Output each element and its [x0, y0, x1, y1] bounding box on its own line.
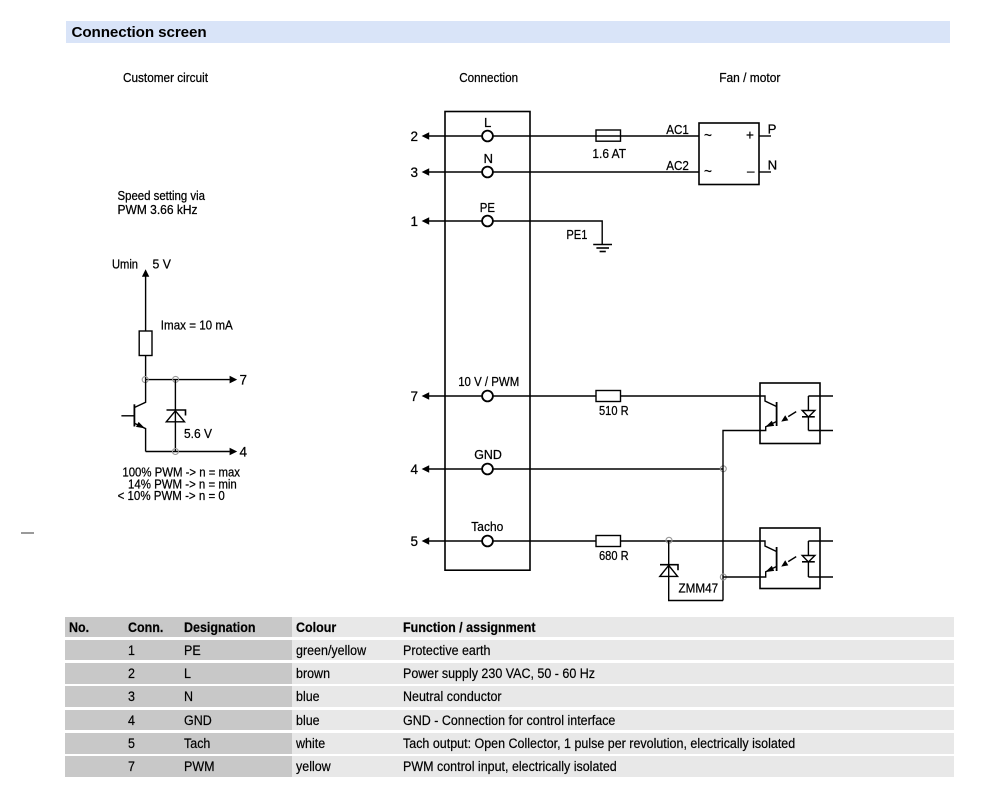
svg-text:Fan / motor: Fan / motor [719, 70, 781, 85]
wire P stub [759, 135, 771, 137]
wire resistor to opto1 [621, 395, 761, 397]
terminal Tacho [482, 536, 493, 547]
node A [142, 377, 148, 383]
svg-text:5.6 V: 5.6 V [184, 426, 212, 441]
svg-text:ZMM47: ZMM47 [679, 581, 719, 596]
zener diode ZMM47 [660, 540, 723, 600]
node B [173, 376, 179, 382]
wire PE to ground [493, 221, 603, 245]
terminal GND [482, 464, 493, 475]
wire terminal 3 arrow [422, 168, 483, 176]
terminal N [482, 167, 493, 178]
svg-text:< 10% PWM -> n = 0: < 10% PWM -> n = 0 [118, 488, 225, 503]
svg-text:~: ~ [704, 164, 712, 179]
terminal 10V/PWM [482, 391, 493, 402]
node tacho junction [666, 537, 672, 543]
optocoupler U2 [760, 383, 833, 444]
wire resistor to node [145, 356, 147, 380]
wire trunk to opto2 [723, 576, 760, 578]
svg-text:GND: GND [474, 447, 502, 462]
wire L to fuse and motor [493, 135, 700, 137]
zener diode D1 5.6 V [166, 380, 185, 452]
optocoupler U3 [760, 528, 833, 589]
node GND junction [720, 466, 726, 472]
wire terminal 7 arrow [422, 392, 483, 400]
wire terminal 5 arrow [422, 537, 483, 545]
wire resistor to opto2 [621, 540, 761, 542]
svg-text:1: 1 [411, 214, 419, 229]
wire N stub [759, 171, 771, 173]
svg-text:5: 5 [411, 534, 419, 549]
svg-text:N: N [768, 158, 778, 173]
wire terminal 1 arrow [422, 217, 483, 225]
svg-text:PWM 3.66 kHz: PWM 3.66 kHz [118, 202, 198, 217]
transistor Q1 [121, 404, 145, 451]
wire terminal 4 arrow [422, 465, 483, 473]
wire emitter row to arrow 4 [146, 448, 238, 456]
terminal L [482, 131, 493, 142]
svg-text:PE1: PE1 [566, 227, 587, 242]
svg-text:510 R: 510 R [599, 403, 629, 418]
motor box [699, 123, 759, 185]
svg-text:~: ~ [704, 128, 712, 143]
wire node to collector [134, 380, 145, 408]
svg-text:1.6 AT: 1.6 AT [592, 146, 626, 161]
svg-text:+: + [746, 128, 754, 143]
svg-text:PE: PE [480, 200, 495, 215]
margin tick [21, 532, 34, 534]
svg-text:5 V: 5 V [153, 257, 172, 272]
title text [72, 24, 207, 41]
svg-text:2: 2 [411, 129, 419, 144]
svg-text:P: P [768, 122, 777, 137]
svg-text:–: – [747, 164, 755, 179]
ground PE1 [593, 245, 612, 252]
connection table [65, 617, 950, 638]
svg-text:Umin: Umin [112, 257, 138, 272]
svg-text:Imax = 10 mA: Imax = 10 mA [161, 318, 233, 333]
wire Tacho to resistor [493, 540, 597, 542]
svg-text:3: 3 [411, 165, 419, 180]
svg-text:L: L [484, 115, 491, 130]
svg-text:7: 7 [411, 389, 419, 404]
wire GND to trunk [493, 468, 724, 470]
resistor 680 R [596, 536, 621, 547]
label Speed setting via PWM 3.66 kHz [118, 188, 206, 217]
svg-text:4: 4 [411, 462, 419, 477]
wire trunk vertical [723, 431, 760, 601]
svg-text:Speed setting via: Speed setting via [118, 188, 206, 203]
wire N to motor [493, 171, 700, 173]
svg-text:Connection: Connection [459, 70, 518, 85]
connection terminal box [445, 112, 530, 571]
supply arrow up [142, 269, 149, 331]
node C [172, 449, 178, 455]
terminal PE [482, 216, 493, 227]
svg-text:AC1: AC1 [666, 122, 689, 137]
svg-text:Tacho: Tacho [471, 519, 503, 534]
svg-text:AC2: AC2 [666, 158, 689, 173]
resistor R1 [139, 331, 152, 356]
wire PWM to resistor [493, 395, 597, 397]
title bar [66, 21, 950, 43]
fuse F1 [596, 130, 621, 141]
svg-text:Customer circuit: Customer circuit [123, 70, 208, 85]
node trunk opto2 junction [720, 574, 726, 580]
resistor 510 R [596, 391, 621, 402]
wire node row to arrow 7 [146, 376, 238, 384]
svg-text:7: 7 [240, 373, 248, 388]
svg-text:4: 4 [240, 445, 248, 460]
svg-text:680 R: 680 R [599, 548, 629, 563]
svg-text:N: N [484, 151, 494, 166]
wire terminal 2 arrow [422, 132, 483, 140]
svg-text:10 V / PWM: 10 V / PWM [458, 374, 519, 389]
